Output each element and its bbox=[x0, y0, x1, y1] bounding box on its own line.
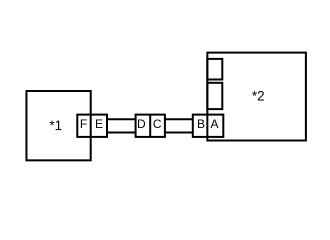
svg-text:F: F bbox=[80, 117, 87, 131]
connector block D/C bbox=[136, 115, 165, 137]
wire C-B top bbox=[164, 118, 194, 120]
connector block B/A bbox=[193, 115, 224, 137]
cavity rect 2 bbox=[207, 83, 222, 109]
svg-text:A: A bbox=[210, 117, 218, 131]
connector block F/E bbox=[77, 115, 107, 137]
cavity rect 1 bbox=[207, 59, 222, 80]
svg-text:*1: *1 bbox=[49, 118, 62, 133]
wire E-D top bbox=[106, 118, 137, 120]
component box *2 bbox=[207, 53, 306, 141]
component box *1 bbox=[26, 91, 90, 160]
divider D/C bbox=[149, 115, 151, 137]
svg-text:C: C bbox=[153, 117, 162, 131]
wire E-D bottom bbox=[106, 132, 137, 134]
svg-text:E: E bbox=[95, 117, 103, 131]
svg-text:*2: *2 bbox=[252, 88, 265, 103]
wire C-B bottom bbox=[164, 132, 194, 134]
svg-text:D: D bbox=[137, 117, 146, 131]
svg-text:B: B bbox=[197, 117, 205, 131]
